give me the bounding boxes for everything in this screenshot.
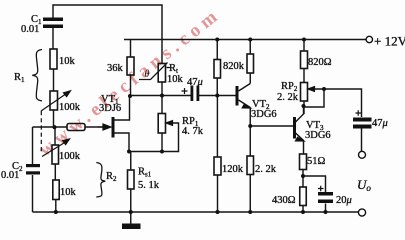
svg-text:820Ω: 820Ω (308, 57, 332, 68)
svg-text:3DG6: 3DG6 (305, 130, 331, 141)
svg-text:100k: 100k (59, 151, 81, 162)
svg-text:820k: 820k (223, 61, 245, 72)
svg-text:2. 2k: 2. 2k (277, 92, 299, 103)
svg-text:20μ: 20μ (336, 195, 352, 206)
svg-text:4. 7k: 4. 7k (182, 126, 204, 137)
svg-text:100k: 100k (59, 102, 81, 113)
svg-text:5. 1k: 5. 1k (138, 180, 160, 191)
svg-text:0.01: 0.01 (1, 170, 19, 181)
svg-text:3DG6: 3DG6 (251, 109, 277, 120)
svg-text:430Ω: 430Ω (272, 195, 296, 206)
svg-text:Uo: Uo (357, 177, 371, 193)
svg-text:0.01: 0.01 (21, 24, 39, 35)
svg-text:10k: 10k (60, 187, 77, 198)
svg-text:10k: 10k (167, 74, 184, 85)
svg-text:R2: R2 (106, 171, 117, 183)
svg-text:10k: 10k (59, 56, 76, 67)
svg-text:θ: θ (145, 69, 150, 80)
svg-text:+ 12V: + 12V (374, 34, 405, 49)
svg-text:36k: 36k (107, 63, 124, 74)
svg-text:3DJ6: 3DJ6 (99, 103, 121, 114)
svg-text:Rs1: Rs1 (138, 167, 152, 179)
svg-text:120k: 120k (222, 164, 244, 175)
svg-text:2. 2k: 2. 2k (255, 164, 277, 175)
svg-text:47μ: 47μ (187, 77, 203, 88)
svg-text:51Ω: 51Ω (307, 156, 326, 167)
svg-text:R1: R1 (14, 72, 25, 84)
svg-text:47μ: 47μ (372, 118, 388, 129)
